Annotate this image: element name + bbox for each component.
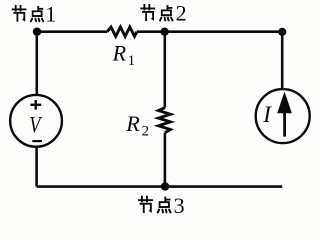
wire: V source down to bottom-left corner xyxy=(35,147,38,186)
wire bottom xyxy=(37,185,283,188)
arrow head xyxy=(277,92,292,114)
node 2 xyxy=(160,28,168,36)
current source I circle xyxy=(256,89,310,143)
junction top-right xyxy=(278,28,286,36)
label R2 xyxy=(125,111,149,140)
label V xyxy=(29,112,42,139)
label I xyxy=(262,102,272,127)
wire: node 2 to top-right corner xyxy=(165,30,283,33)
svg-text:3: 3 xyxy=(174,193,185,218)
wire: R2 down to node 3 xyxy=(164,133,167,187)
label 节点3 xyxy=(138,193,185,218)
wire: node1 down to V source xyxy=(35,32,38,94)
arrow shaft xyxy=(283,111,286,137)
plus sign xyxy=(30,100,41,110)
node 1 xyxy=(33,28,41,36)
wire: top-right corner down to I source xyxy=(281,32,284,90)
svg-text:2: 2 xyxy=(142,124,150,140)
svg-text:1: 1 xyxy=(128,53,136,69)
label R1 xyxy=(112,41,136,69)
resistor R1 xyxy=(107,27,137,36)
wire top: node1 to R1 xyxy=(37,30,107,33)
svg-text:R: R xyxy=(112,41,127,66)
label 节点1 xyxy=(12,1,56,26)
svg-text:I: I xyxy=(262,102,272,127)
svg-text:1: 1 xyxy=(45,1,56,26)
label 节点2 xyxy=(140,1,186,26)
svg-text:V: V xyxy=(29,112,42,139)
svg-text:2: 2 xyxy=(176,1,187,26)
wire: R1 to node 2 xyxy=(137,30,165,33)
voltage source V circle xyxy=(10,95,62,147)
svg-text:R: R xyxy=(125,111,140,136)
node 3 xyxy=(161,182,169,190)
wire: node2 down to R2 xyxy=(164,32,167,108)
minus sign xyxy=(32,140,42,142)
resistor R2 xyxy=(158,108,170,133)
